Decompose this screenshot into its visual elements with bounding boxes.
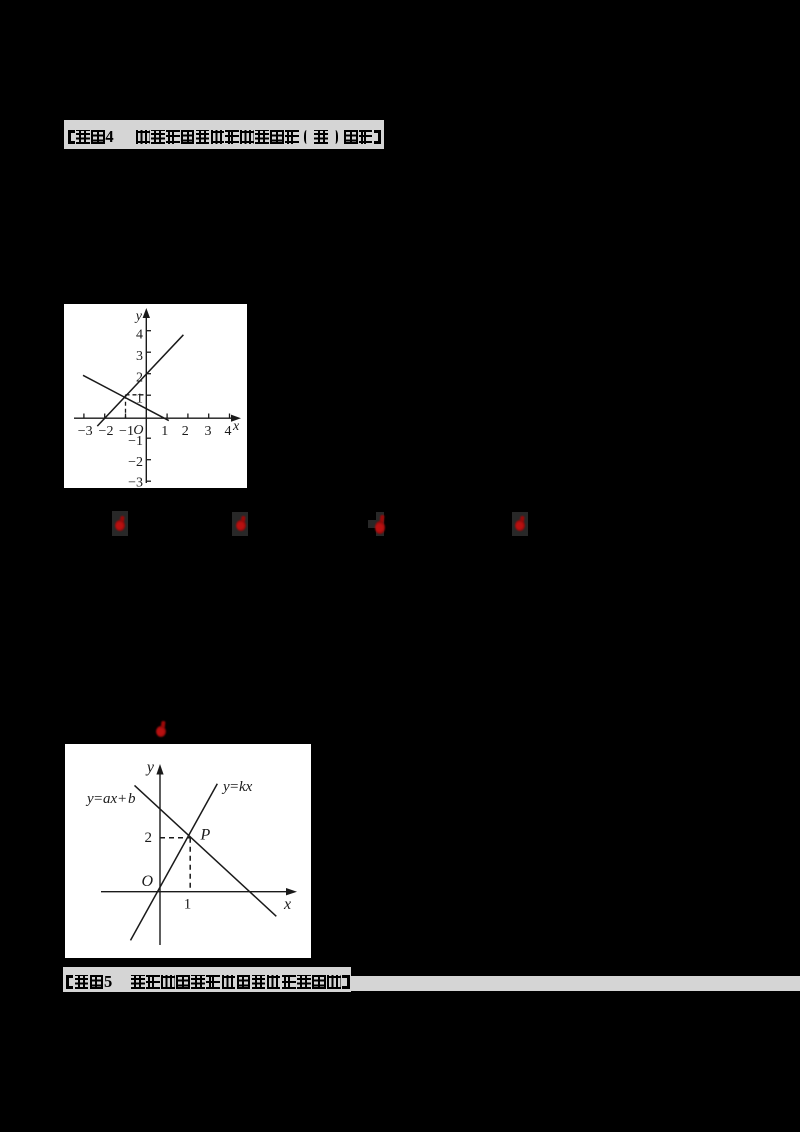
svg-text:kx: kx (239, 779, 253, 795)
svg-text:1: 1 (136, 392, 143, 407)
svg-text:ax: ax (103, 791, 118, 807)
svg-text:O: O (141, 873, 153, 890)
svg-text:b: b (128, 791, 136, 807)
svg-text:−3: −3 (78, 424, 93, 439)
svg-text:P: P (200, 827, 211, 844)
svg-text:−3: −3 (128, 476, 143, 489)
svg-text:4: 4 (225, 424, 232, 439)
svg-text:y: y (134, 309, 143, 324)
svg-text:y: y (85, 791, 94, 807)
svg-text:2: 2 (136, 371, 143, 386)
svg-text:1: 1 (184, 897, 192, 913)
svg-text:−2: −2 (128, 455, 143, 470)
svg-text:3: 3 (205, 424, 212, 439)
svg-text:y: y (221, 779, 230, 795)
svg-text:−2: −2 (99, 424, 114, 439)
svg-text:3: 3 (136, 349, 143, 364)
svg-text:y: y (145, 759, 155, 776)
svg-text:=: = (230, 779, 238, 795)
svg-text:2: 2 (145, 830, 153, 846)
svg-text:+: + (118, 791, 126, 807)
svg-text:=: = (94, 791, 102, 807)
svg-text:x: x (232, 419, 240, 434)
svg-text:1: 1 (161, 424, 168, 439)
svg-text:x: x (283, 896, 291, 913)
svg-text:−1: −1 (128, 434, 143, 449)
svg-text:2: 2 (182, 424, 189, 439)
svg-text:4: 4 (136, 328, 143, 343)
